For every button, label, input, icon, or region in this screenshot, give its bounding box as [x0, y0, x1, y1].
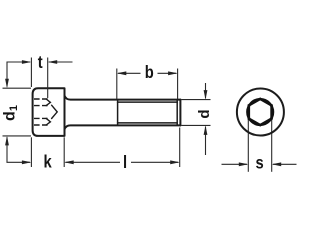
- dim t: left extension line: [30, 58, 32, 88]
- dim s: right arrow tail: [273, 163, 297, 165]
- dim b: right arrow tail: [158, 72, 177, 74]
- dim s: left arrow tail: [222, 163, 248, 165]
- svg-text:b: b: [145, 63, 154, 83]
- arrow d1 top (points down): [5, 79, 9, 89]
- hex socket (thick hexagon, pointy top): [249, 99, 272, 125]
- dim b: left arrow tail: [118, 72, 141, 74]
- svg-text:t: t: [38, 53, 43, 73]
- dim l: right extension line: [179, 128, 181, 168]
- arrow k left (points right): [22, 160, 32, 164]
- dim b: right extension line: [177, 69, 179, 100]
- arrow d top (points down): [204, 90, 208, 100]
- thread minor diameter bottom line: [118, 122, 178, 124]
- svg-text:l: l: [123, 152, 127, 172]
- head outer circle: [237, 89, 284, 136]
- arrow k right / l left (points left): [64, 160, 74, 164]
- dim d: top extension line: [182, 99, 211, 101]
- socket bottom wall dashed: [34, 124, 48, 126]
- dim d1: top extension line: [3, 87, 32, 89]
- svg-text:k: k: [43, 152, 52, 172]
- socket top chevron: [46, 99, 50, 106]
- thread chamfer line at tip: [176, 100, 178, 125]
- dim k/l: middle extension line: [63, 137, 65, 167]
- svg-text:d: d: [196, 109, 213, 118]
- arrow t right (points left): [48, 60, 58, 64]
- arrow b left (points left): [117, 71, 127, 75]
- arrow d1 bottom (points up): [5, 136, 9, 146]
- thread minor diameter top line: [118, 101, 178, 103]
- shaft top edge with fillet: [65, 96, 181, 100]
- dim d: top arrow tail: [205, 83, 207, 98]
- dim b: left extension line: [116, 69, 118, 100]
- dim d: bottom extension line: [182, 124, 211, 126]
- socket bottom chevron: [46, 118, 50, 125]
- dim d1: bottom extension line: [3, 135, 32, 137]
- shaft bottom edge with fillet: [65, 125, 181, 129]
- arrow s right (points left): [272, 162, 282, 166]
- dim t: right extension line: [47, 58, 49, 99]
- dim s: left extension line: [247, 119, 249, 172]
- arrow t left (points right): [22, 60, 32, 64]
- hidden socket lines (dashed): [34, 99, 48, 125]
- screw head outline: [33, 88, 65, 136]
- thread start line: [117, 100, 119, 125]
- socket drill point chevron: [52, 105, 58, 118]
- socket hex inner top dashed: [34, 105, 48, 107]
- socket chamfer circle (thick): [247, 99, 273, 125]
- socket top wall dashed: [34, 98, 48, 100]
- dim t: right arrow tail: [49, 61, 73, 63]
- dim l: line right part: [131, 161, 178, 163]
- dim k: right arrow tail / dim l line left part: [65, 161, 120, 163]
- arrow b right (points right): [168, 71, 178, 75]
- dim d: bottom arrow tail: [205, 127, 207, 155]
- dim t: left tail with bend down to d1 top arrow: [7, 62, 30, 87]
- arrowheads: [5, 60, 281, 166]
- dim s: right extension line: [271, 119, 273, 172]
- dim k: left extension line: [30, 137, 32, 167]
- shaft end line: [179, 100, 181, 126]
- socket hex inner bottom dashed: [34, 117, 48, 119]
- arrow d bottom (points up): [204, 125, 208, 134]
- dim d1: bottom arrow tail with foot to k arrow: [7, 137, 30, 162]
- arrow l right (points right): [170, 160, 180, 164]
- arrow s left (points right): [239, 162, 249, 166]
- svg-text:s: s: [255, 153, 263, 173]
